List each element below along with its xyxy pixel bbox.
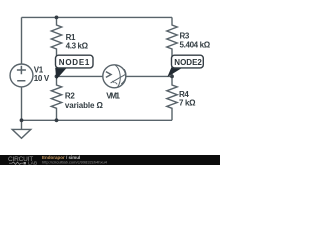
svg-text:4.3 kΩ: 4.3 kΩ: [66, 41, 89, 50]
R2 value label: [65, 92, 104, 110]
svg-text:NODE2: NODE2: [174, 58, 202, 67]
svg-text:10 V: 10 V: [34, 74, 50, 83]
R1 value label: [66, 33, 89, 51]
junction dot top R1: [55, 16, 59, 20]
junction dot node B (NODE2): [170, 75, 174, 79]
svg-text:VM1: VM1: [106, 92, 120, 101]
resistor R4: [167, 76, 177, 120]
ground: [12, 120, 31, 138]
resistor R3: [167, 17, 177, 76]
svg-text:NODE1: NODE1: [59, 58, 90, 67]
resistor R2: [51, 76, 61, 120]
junction dot bottom ground: [20, 118, 24, 122]
svg-text:LAB: LAB: [28, 161, 37, 165]
svg-text:5.404 kΩ: 5.404 kΩ: [180, 41, 211, 50]
resistor R1: [51, 17, 61, 76]
svg-text:7 kΩ: 7 kΩ: [179, 99, 196, 108]
svg-text:R3: R3: [180, 32, 190, 41]
R4 value label: [179, 90, 196, 108]
node NODE1 flag: [55, 55, 93, 79]
footer CircuitLab logo: [8, 156, 37, 166]
footer bar: [0, 155, 220, 165]
svg-text:variable Ω: variable Ω: [65, 101, 104, 110]
svg-text:R2: R2: [65, 92, 75, 101]
wire bottom rail: [22, 119, 173, 121]
wire middle left (node1 to voltmeter): [57, 75, 104, 77]
svg-text:http://circuitlab.com/c/99832s: http://circuitlab.com/c/99832sh4hxu4: [42, 159, 108, 164]
wire top rail: [22, 16, 173, 18]
junction dot bottom R2: [55, 118, 59, 122]
node NODE2 flag: [167, 55, 203, 77]
voltmeter VM1: [103, 65, 126, 88]
V1 value label: [34, 66, 50, 83]
voltage source V1: [10, 17, 33, 120]
junction dot node A (NODE1): [55, 75, 59, 79]
wire middle right (voltmeter to node2): [126, 75, 172, 77]
R3 value label: [180, 32, 211, 50]
